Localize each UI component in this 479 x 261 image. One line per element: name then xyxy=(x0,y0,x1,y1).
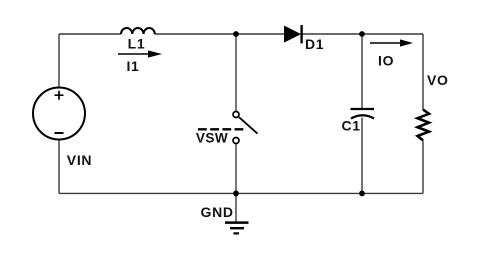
svg-text:VIN: VIN xyxy=(67,152,92,168)
svg-text:D1: D1 xyxy=(305,36,324,52)
svg-text:GND: GND xyxy=(201,204,234,220)
svg-text:VO: VO xyxy=(427,72,449,88)
svg-text:C1: C1 xyxy=(342,117,361,133)
svg-text:L1: L1 xyxy=(128,36,146,52)
svg-text:VSW: VSW xyxy=(196,131,228,146)
svg-text:I1: I1 xyxy=(126,58,139,74)
svg-text:IO: IO xyxy=(378,53,394,69)
